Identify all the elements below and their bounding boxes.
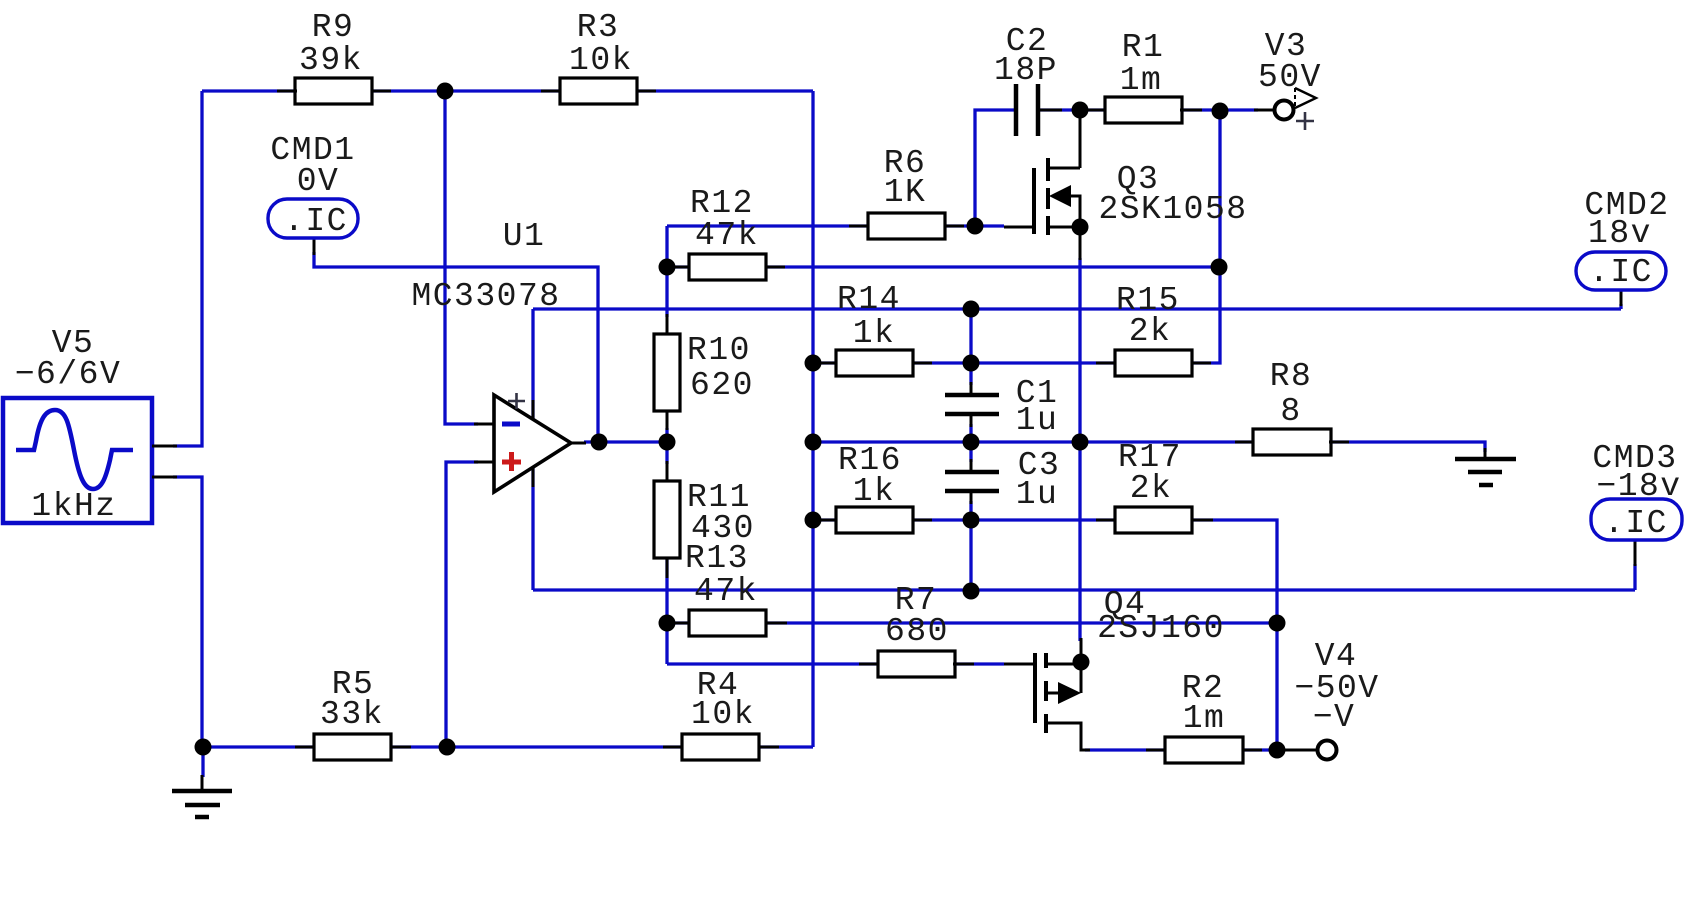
svg-text:680: 680 (885, 613, 949, 650)
svg-text:1m: 1m (1183, 700, 1226, 737)
svg-text:39k: 39k (299, 42, 363, 79)
svg-text:1u: 1u (1016, 402, 1059, 439)
svg-text:R10: R10 (687, 332, 751, 369)
svg-text:8: 8 (1280, 393, 1301, 430)
svg-text:18P: 18P (994, 52, 1058, 89)
svg-text:.IC: .IC (284, 203, 348, 240)
svg-text:47k: 47k (694, 573, 758, 610)
svg-text:18v: 18v (1588, 215, 1652, 252)
svg-text:−18v: −18v (1596, 468, 1681, 505)
svg-text:MC33078: MC33078 (411, 278, 560, 315)
svg-text:.IC: .IC (1604, 505, 1668, 542)
svg-text:0V: 0V (297, 163, 340, 200)
svg-text:2k: 2k (1129, 313, 1172, 350)
svg-text:R9: R9 (312, 9, 355, 46)
svg-text:R13: R13 (685, 540, 749, 577)
svg-text:R3: R3 (577, 9, 620, 46)
svg-text:1k: 1k (853, 473, 896, 510)
svg-text:−V: −V (1313, 699, 1356, 736)
svg-text:R1: R1 (1122, 29, 1165, 66)
svg-text:10k: 10k (569, 42, 633, 79)
svg-text:2SK1058: 2SK1058 (1098, 191, 1247, 228)
svg-text:1m: 1m (1120, 62, 1163, 99)
svg-text:2SJ160: 2SJ160 (1097, 610, 1225, 647)
svg-text:R14: R14 (837, 281, 901, 318)
svg-text:1kHz: 1kHz (31, 488, 116, 525)
svg-text:33k: 33k (320, 696, 384, 733)
svg-text:10k: 10k (691, 696, 755, 733)
svg-text:.IC: .IC (1589, 254, 1653, 291)
svg-text:U1: U1 (503, 218, 546, 255)
svg-text:47k: 47k (695, 217, 759, 254)
svg-text:1K: 1K (884, 174, 927, 211)
svg-text:1u: 1u (1016, 476, 1059, 513)
svg-text:−6/6V: −6/6V (15, 356, 122, 393)
svg-text:50V: 50V (1258, 59, 1322, 96)
svg-text:620: 620 (690, 367, 754, 404)
svg-text:R8: R8 (1270, 358, 1313, 395)
svg-text:2k: 2k (1130, 470, 1173, 507)
svg-text:1k: 1k (853, 315, 896, 352)
